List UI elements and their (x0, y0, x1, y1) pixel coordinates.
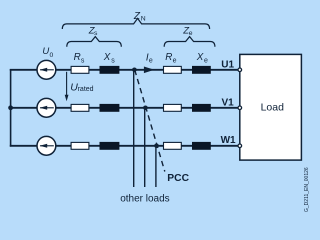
resistor Rs (phase 1) (71, 66, 89, 73)
load box (240, 54, 302, 160)
label Xe (196, 52, 208, 65)
svg-text:other loads: other loads (120, 194, 169, 205)
wire phase 2 (10, 107, 240, 109)
brace ZN (62, 18, 209, 29)
voltage source G3 (phase 3) (37, 136, 56, 155)
svg-text:X: X (196, 52, 204, 63)
label Xs (103, 52, 116, 65)
label Ze (182, 25, 193, 37)
svg-text:s: s (94, 30, 98, 37)
label Ie (146, 53, 153, 65)
svg-text:s: s (111, 58, 115, 65)
svg-text:G_D211_EN_00126: G_D211_EN_00126 (304, 167, 310, 212)
svg-text:U1: U1 (221, 59, 234, 70)
wire other-loads drop phase 2 (144, 108, 146, 187)
brace Ze (164, 37, 215, 47)
svg-text:e: e (173, 58, 177, 65)
resistor Re (phase 2) (164, 104, 182, 111)
arrow Ie (144, 67, 154, 74)
terminal W1 (238, 144, 242, 148)
junction node phase 1 / PCC tap (132, 68, 137, 73)
svg-text:e: e (149, 57, 153, 64)
wire phase 1 (10, 69, 240, 71)
terminal U1 (238, 68, 242, 72)
voltage source G2 (phase 2) (37, 98, 56, 117)
label Re (165, 52, 176, 65)
svg-text:N: N (141, 16, 146, 23)
junction on left bus at phase 2 (8, 105, 13, 110)
resistor Rs (phase 2) (71, 104, 89, 111)
junction node phase 3 / PCC tap (154, 144, 159, 149)
svg-text:U: U (42, 46, 49, 57)
voltage source G1 (phase 1) (37, 60, 56, 79)
svg-text:e: e (204, 58, 208, 65)
svg-text:V1: V1 (222, 98, 235, 109)
label Zs (88, 25, 98, 37)
dashed PCC locus line (135, 70, 165, 172)
label ZN (133, 11, 146, 23)
arrow Urated (65, 72, 69, 101)
reactance Xe (phase 2) (193, 104, 211, 111)
label Urated (70, 81, 93, 93)
svg-text:R: R (74, 52, 81, 63)
svg-text:s: s (81, 58, 85, 65)
svg-text:rated: rated (78, 86, 94, 93)
reactance Xe (phase 1) (193, 66, 211, 73)
junction node phase 2 / PCC tap (143, 106, 148, 111)
resistor Rs (phase 3) (71, 142, 89, 149)
reactance Xs (phase 3) (100, 142, 119, 149)
label U0 (42, 46, 53, 59)
wire phase 3 (10, 145, 240, 147)
svg-text:0: 0 (50, 52, 54, 59)
wire left bus (10, 69, 12, 147)
svg-text:e: e (189, 30, 193, 37)
resistor Re (phase 1) (164, 66, 182, 73)
wire other-loads drop phase 3 (155, 146, 157, 187)
svg-text:R: R (165, 52, 172, 63)
wire other-loads drop phase 1 (133, 70, 135, 187)
label Rs (74, 52, 85, 65)
brace Zs (67, 37, 122, 47)
resistor Re (phase 3) (164, 142, 182, 149)
reactance Xs (phase 1) (100, 66, 119, 73)
svg-text:Z: Z (133, 11, 141, 22)
svg-text:Load: Load (261, 102, 285, 114)
reactance Xs (phase 2) (100, 104, 119, 111)
svg-text:PCC: PCC (167, 173, 189, 184)
svg-text:X: X (103, 52, 111, 63)
svg-text:W1: W1 (221, 135, 236, 146)
terminal V1 (238, 106, 242, 110)
reactance Xe (phase 3) (193, 142, 211, 149)
